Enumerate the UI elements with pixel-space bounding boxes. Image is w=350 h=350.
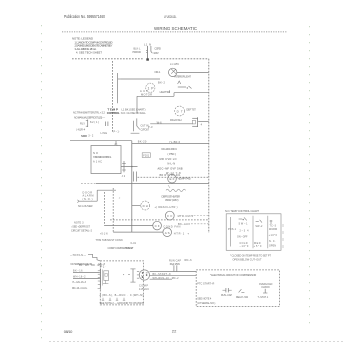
svg-text:15µF 250V: 15µF 250V <box>170 263 181 266</box>
svg-text:N.C.: N.C. <box>269 240 276 243</box>
svg-text:LFUS2613L: LFUS2613L <box>164 15 177 19</box>
ground tick marks row <box>102 298 125 300</box>
svg-text:22: 22 <box>172 329 177 334</box>
svg-text:BK-2: BK-2 <box>158 81 166 85</box>
svg-text:CORD: CORD <box>154 46 161 50</box>
cabinet boundary top dashed (left of cord) <box>72 58 144 60</box>
svg-text:% BOARD CONTROL: % BOARD CONTROL <box>93 155 112 159</box>
temp control feed vertical <box>117 73 119 103</box>
svg-text:N.O. TEMP CONTROL CHART: N.O. TEMP CONTROL CHART <box>225 209 259 213</box>
overload protector <box>128 269 136 282</box>
harness wire 1 <box>73 272 100 274</box>
svg-text:L1 115V: L1 115V <box>170 63 179 66</box>
svg-text:(N.O.): (N.O.) <box>83 198 93 201</box>
detail cap symbol <box>221 288 232 297</box>
wire labels between <box>153 273 180 280</box>
svg-text:POS·1: POS·1 <box>228 228 237 231</box>
chart right edge tick marks <box>282 224 284 248</box>
svg-text:NOTE 3: NOTE 3 <box>74 222 84 225</box>
node tick <box>118 78 121 80</box>
svg-text:N-L-N: N-L-N <box>168 162 176 165</box>
left side relay K1 <box>74 115 105 137</box>
interior light B1 <box>169 68 177 76</box>
svg-text:COMP COMPARTMENT: COMP COMPARTMENT <box>108 246 134 250</box>
inline connector plug/receptacle <box>192 117 209 127</box>
svg-text:SEE NOTE 4: SEE NOTE 4 <box>197 297 212 300</box>
chart contact symbol 1 <box>239 217 249 225</box>
wire row to connector <box>148 118 193 129</box>
svg-text:NC ADC·RD C: NC ADC·RD C <box>162 148 178 151</box>
svg-text:SEE NOTE 2 — GROUND TO CHASSIS: SEE NOTE 2 — GROUND TO CHASSIS <box>100 302 144 305</box>
svg-text:CUT IN: CUT IN <box>141 125 149 128</box>
svg-text:3-2: 3-2 <box>88 135 94 138</box>
svg-text:3. ALL WIRING 18 GA.: 3. ALL WIRING 18 GA. <box>75 47 97 51</box>
door alarm wiring left <box>77 190 116 202</box>
svg-text:Publication No. 5995571460: Publication No. 5995571460 <box>64 14 106 19</box>
chart symbol 3 <box>270 220 277 227</box>
svg-text:RUN–CAP: RUN–CAP <box>221 294 232 297</box>
svg-text:L1 BK (SEE CHART): L1 BK (SEE CHART) <box>122 107 146 111</box>
svg-text:—TO P3–N —: —TO P3–N — <box>70 254 87 257</box>
PTC start device box <box>103 271 109 284</box>
chart column divider 2 <box>267 216 269 248</box>
svg-text:+(EVAP FAN): +(EVAP FAN) <box>178 177 191 181</box>
svg-text:6–01: 6–01 <box>131 242 137 245</box>
compressor wire lower to detail box <box>150 275 197 277</box>
svg-text:+: + <box>187 231 189 235</box>
svg-text:CONTROL: CONTROL <box>107 111 120 115</box>
svg-text:NO: NO <box>93 151 98 155</box>
svg-text:RD-22 WH: RD-22 WH <box>170 118 182 122</box>
svg-text:CUT OUT: CUT OUT <box>141 128 150 131</box>
svg-text:8.2 ( 1 ): 8.2 ( 1 ) <box>90 121 99 124</box>
svg-text:08/10: 08/10 <box>64 329 73 334</box>
svg-text:AUX: AUX <box>140 89 148 93</box>
long dashed neutral lower <box>110 219 209 221</box>
svg-text:OR-1: OR-1 <box>154 70 161 74</box>
svg-text:–10°F: –10°F <box>240 245 250 248</box>
svg-text:M: M <box>146 273 148 275</box>
compressor detail dashed box <box>196 270 279 307</box>
svg-text:MR CVD LO: MR CVD LO <box>160 158 177 161</box>
svg-text:WIRING SCHEMATIC: WIRING SCHEMATIC <box>154 26 198 31</box>
compressor motor <box>139 270 149 280</box>
svg-text:FF: FF <box>167 214 172 218</box>
svg-text:WH–16–2: WH–16–2 <box>73 276 86 279</box>
svg-text:INTERIOR LIGHT: INTERIOR LIGHT <box>175 74 192 78</box>
svg-text:P2·: P2· <box>101 265 106 268</box>
wire corner down to thermostat <box>136 96 138 113</box>
aux contact pair <box>101 122 121 136</box>
connector bar P2 <box>98 269 103 290</box>
page border right dotted <box>309 26 311 325</box>
svg-text:2–3 4: 2–3 4 <box>240 230 250 233</box>
board drop dashed A <box>103 192 105 226</box>
defrost thermostat (dashed circle) <box>175 106 185 116</box>
svg-text:NMR: NMR <box>81 134 87 138</box>
svg-text:T–STAT·1: T–STAT·1 <box>258 296 269 299</box>
svg-text:P–1·: P–1· <box>114 130 121 133</box>
svg-text:DEF TST: DEF TST <box>186 108 196 112</box>
junction dot <box>123 274 124 275</box>
svg-text:F201: F201 <box>143 155 150 158</box>
chart column divider 1 <box>252 216 254 248</box>
svg-text:+5°F: +5°F <box>254 245 263 248</box>
svg-text:( P5N ): ( P5N ) <box>168 153 177 156</box>
jog wire into box <box>88 254 100 261</box>
svg-text:A (BK–S), B—RUN · C (WH–M): A (BK–S), B—RUN · C (WH–M) <box>100 294 144 297</box>
svg-text:AS: AS <box>165 231 170 235</box>
lower stub label + dashes <box>178 222 209 226</box>
page border bottom dashed <box>49 341 345 343</box>
control board U1 <box>91 146 121 174</box>
svg-text:BK–16: BK–16 <box>73 270 83 273</box>
evaporator fan motor M2 <box>168 174 177 188</box>
anti sweat heater row <box>113 228 171 237</box>
start relay label <box>169 260 181 266</box>
svg-text:CIRCUIT DETAIL–2: CIRCUIT DETAIL–2 <box>71 230 93 233</box>
boxed fuse label <box>142 153 150 158</box>
svg-text:BLK·L: BLK·L <box>134 47 142 50</box>
svg-text:RD–6: RD–6 <box>185 259 193 262</box>
svg-text:HTR·1: HTR·1 <box>174 232 185 236</box>
svg-text:BK-20: BK-20 <box>138 139 147 143</box>
svg-text:NC LOUVER: NC LOUVER <box>78 204 93 208</box>
svg-text:LIGHT SW: LIGHT SW <box>160 90 171 94</box>
light switch S1 <box>178 81 192 89</box>
wire from relay to bus <box>70 140 132 142</box>
svg-text:NO MANUAL DEFROST (1/2) —: NO MANUAL DEFROST (1/2) — <box>74 115 105 119</box>
compressor terminal pins <box>137 272 139 279</box>
cabinet inner dashed vertical <box>111 61 113 133</box>
svg-text:SW–2: SW–2 <box>255 225 263 228</box>
svg-text:ADC–MF OVF 5NB: ADC–MF OVF 5NB <box>158 167 183 170</box>
board drop dashed B <box>112 188 114 232</box>
svg-text:NC TRANSMITTER [TRL + 2.2: NC TRANSMITTER [TRL + 2.2 <box>73 111 106 115</box>
svg-text:WH–RUN–10 · RD–2: WH–RUN–10 · RD–2 <box>153 277 180 280</box>
svg-text:OPEN: OPEN <box>269 245 276 248</box>
svg-text:EF: EF <box>170 177 175 181</box>
temp control bold label <box>107 107 147 115</box>
wire light to right boundary <box>177 71 209 73</box>
svg-text:RD–16–4 LUG ·: RD–16–4 LUG · <box>72 287 88 290</box>
freezer fan label + dashed stub <box>178 214 209 218</box>
svg-text:+10°F: +10°F <box>269 234 278 237</box>
cabinet boundary right dashed vertical <box>208 59 210 233</box>
tick into board <box>115 141 117 145</box>
fan motor M1 <box>146 83 155 92</box>
svg-text:PTC START–R: PTC START–R <box>197 283 214 286</box>
condenser fan row <box>104 221 161 230</box>
dashed neutral row <box>138 176 209 178</box>
main bus vertical <box>131 141 133 232</box>
svg-text:115V: 115V <box>153 51 159 55</box>
svg-text:* CLOSED ON TEMP RISE TO SET: * CLOSED ON TEMP RISE TO SET PT <box>230 254 271 257</box>
power cord plug P1 <box>144 42 152 60</box>
svg-text:* ELECTRICAL CIRCUIT OF COM: * ELECTRICAL CIRCUIT OF COMPRESSOR <box>210 273 256 277</box>
wire run lower to boundary with jog <box>137 90 209 96</box>
svg-text:L1 N: L1 N <box>144 42 151 46</box>
defrost heater element squiggle <box>166 189 186 191</box>
svg-text:OPEN BELOW CUT–OUT: OPEN BELOW CUT–OUT <box>233 258 262 261</box>
svg-text:DEFROST HEATER: DEFROST HEATER <box>162 194 181 198</box>
svg-text:TC–3: TC–3 <box>270 224 277 227</box>
svg-text:|-N1R-4: |-N1R-4 <box>76 127 86 131</box>
svg-text:4. SEE TECH SHEET: 4. SEE TECH SHEET <box>76 50 102 54</box>
svg-text:SW–1: SW–1 <box>239 223 249 226</box>
cold control switch <box>131 118 140 133</box>
compressor label <box>139 284 149 290</box>
freezer fan motor M3 <box>165 211 174 220</box>
svg-text:CF: CF <box>155 224 160 228</box>
svg-text:BK · WH · RD · GN: BK · WH · RD · GN <box>79 264 101 267</box>
header separator dashed line <box>62 31 287 33</box>
svg-text:BK–START–8: BK–START–8 <box>153 273 172 276</box>
drain heater (dashed circle) <box>141 201 150 210</box>
svg-text:KLIXON: KLIXON <box>262 286 270 289</box>
svg-text:N.O. CLOSE ON FALL: N.O. CLOSE ON FALL <box>121 111 147 115</box>
detail thermal symbol <box>258 283 273 299</box>
svg-text:WARM: WARM <box>269 228 277 231</box>
svg-text:DH: DH <box>143 204 148 208</box>
svg-text:(AT SERIAL NO.): (AT SERIAL NO.) <box>197 302 215 305</box>
svg-text:A 1 AC: A 1 AC <box>93 160 102 164</box>
notes block <box>72 37 113 55</box>
run capacitor plates <box>174 265 177 271</box>
chart inner left rail <box>229 217 231 247</box>
svg-text:LINE: LINE <box>101 132 108 135</box>
svg-text:RELAY–SW: RELAY–SW <box>236 296 249 299</box>
svg-text:THIS TAB MUST CONN: THIS TAB MUST CONN <box>96 239 123 242</box>
note block with arrow <box>71 222 93 233</box>
svg-text:1P: 1P <box>148 87 155 91</box>
stub wire <box>150 278 172 280</box>
compressor compartment dashed box <box>100 261 143 305</box>
neutral run wire <box>96 183 209 185</box>
defrost heater label rows <box>162 194 181 202</box>
svg-text:YL-BR-6: YL-BR-6 <box>169 141 181 144</box>
wire bus to boundary top row <box>132 143 209 145</box>
chart contact symbol 2 <box>255 220 263 228</box>
harness wire 2 <box>73 278 100 280</box>
temp control chart box <box>226 214 281 251</box>
wire bus to drain heater <box>132 205 141 207</box>
svg-text:RLY: RLY <box>80 121 85 125</box>
compressor wire upper to detail box <box>150 271 197 273</box>
svg-text:+( DRAIN–HTR ): +( DRAIN–HTR ) <box>155 205 178 209</box>
connector pair on neutral stub <box>134 172 137 182</box>
page border left dotted <box>41 25 43 341</box>
cold control contact labels <box>141 125 150 132</box>
left neutral dashed stub <box>81 183 96 185</box>
net name rows <box>158 148 183 175</box>
svg-text:450W (115V): 450W (115V) <box>165 198 179 202</box>
svg-text:NOTE: LEGEND: NOTE: LEGEND <box>72 37 93 41</box>
svg-text:115VAC: 115VAC <box>139 288 149 291</box>
cabinet boundary top dashed (right of cord) <box>152 58 209 60</box>
wire L1 branch <box>121 78 160 80</box>
svg-text:+5·1 N: +5·1 N <box>100 233 108 236</box>
svg-text:ON – OFF: ON – OFF <box>237 235 248 238</box>
board output connector pins <box>121 161 138 178</box>
svg-text:› SEE +DEFROST: › SEE +DEFROST <box>71 226 90 229</box>
svg-text:YL–GN–16–3: YL–GN–16–3 <box>72 281 87 284</box>
detail switch symbol <box>236 289 249 299</box>
chart text cells <box>228 228 278 248</box>
svg-text:PWR CD: PWR CD <box>133 51 142 54</box>
door alarm text block <box>83 191 94 201</box>
